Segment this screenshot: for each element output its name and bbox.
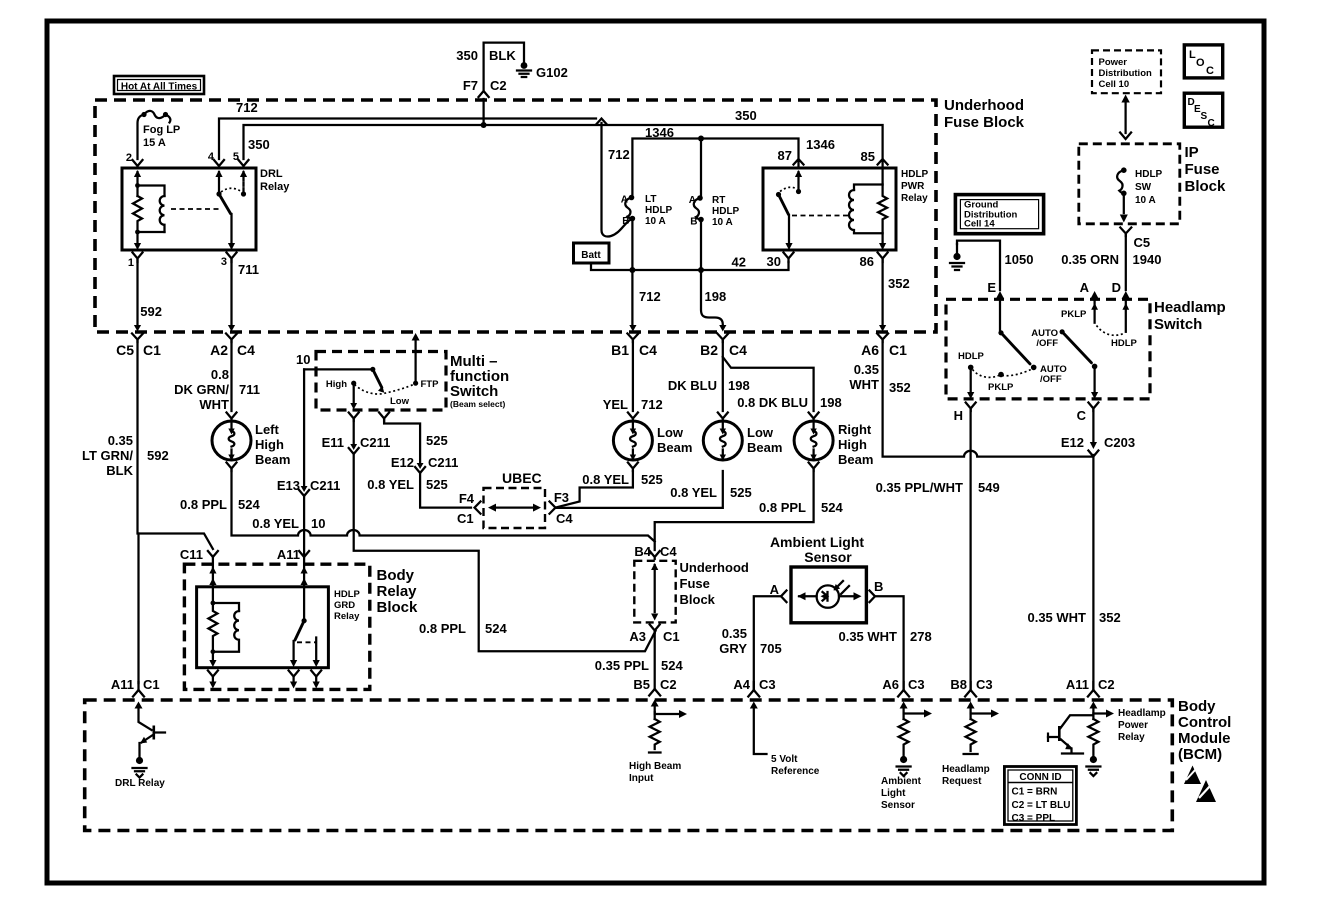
svg-text:Fuse: Fuse [680,576,710,591]
svg-text:C2: C2 [1098,677,1115,692]
switch dotted arc [355,384,416,394]
svg-text:Relay: Relay [260,181,290,193]
svg-text:Batt: Batt [581,250,601,261]
svg-text:Fog LP: Fog LP [143,124,180,136]
wire 0.35 WHT 352 to BCM [1027,455,1120,689]
svg-text:C211: C211 [310,478,340,493]
svg-text:549: 549 [978,480,1000,495]
svg-text:Beam: Beam [838,452,873,467]
svg-text:C1: C1 [143,342,161,358]
svg-text:BLK: BLK [489,48,516,63]
connector C11 [180,547,218,587]
wire 0.8 YEL 525 (F3 to Low Beam L) [557,471,663,507]
svg-text:D: D [1112,280,1121,295]
svg-text:712: 712 [639,289,661,304]
pin A [1080,280,1099,323]
connector B2 C4 [700,325,747,358]
svg-text:Relay: Relay [334,611,360,622]
svg-text:Sensor: Sensor [881,800,915,811]
svg-text:A11: A11 [277,547,300,562]
transistor Headlamp Power Relay [1048,715,1093,753]
fuse RT HDLP 10A [689,195,740,228]
svg-text:Cell 10: Cell 10 [1099,79,1130,90]
svg-text:GRY: GRY [719,641,747,656]
Power Distribution Cell 10 (dashed box) [1092,50,1161,93]
svg-text:C: C [1208,118,1215,129]
svg-text:Low: Low [657,425,684,440]
wire 712 horizontal [219,100,596,159]
svg-text:5 Volt: 5 Volt [771,754,798,765]
fuse Fog LP 15A [138,111,181,159]
ground (DRL relay driver) [115,757,165,789]
svg-text:B2: B2 [700,342,718,358]
svg-text:L: L [1189,49,1196,61]
High Beam Input [629,710,687,784]
connector A11 C2 [1066,677,1115,709]
connector A2 C4 [210,325,255,358]
connector B8 C3 [950,677,992,709]
wire 352 from pin 86 [883,260,910,325]
junction dots on 42 [629,267,635,273]
svg-text:/OFF: /OFF [1036,338,1058,349]
svg-text:CONN ID: CONN ID [1019,772,1061,783]
Headlamp Switch (dashed box) [946,299,1226,399]
svg-text:0.35 PPL: 0.35 PPL [595,658,649,673]
connector B5 C2 [633,677,676,712]
svg-text:E11: E11 [322,435,344,450]
svg-text:F4: F4 [459,491,475,506]
svg-text:Power: Power [1118,720,1148,731]
Underhood Fuse Block small (dashed box) [634,560,749,622]
svg-text:Headlamp: Headlamp [1154,299,1226,316]
svg-text:0.8 DK BLU: 0.8 DK BLU [737,395,808,410]
svg-text:0.35: 0.35 [722,626,747,641]
connector A3 C1 [629,625,679,645]
ground G102 [517,62,568,80]
lamp Left High Beam [212,413,290,468]
svg-text:GRD: GRD [334,600,355,611]
svg-text:711: 711 [238,262,259,277]
Batt box [574,243,610,263]
wire LT fuse B down (712) [632,220,660,325]
connector A4 C3 [733,677,775,709]
lamp Low Beam (right) [703,413,782,461]
svg-text:0.8 PPL: 0.8 PPL [759,500,806,515]
svg-text:C2 = LT BLU: C2 = LT BLU [1012,800,1071,811]
svg-text:Control: Control [1178,714,1231,731]
svg-text:C1: C1 [663,629,680,644]
svg-text:525: 525 [730,485,752,500]
svg-text:Relay: Relay [377,583,418,600]
svg-text:352: 352 [889,380,911,395]
connector B1 C4 [611,325,657,358]
svg-text:524: 524 [661,658,683,673]
wire 42 [591,255,789,271]
svg-text:C3: C3 [908,677,925,692]
svg-text:3: 3 [221,256,227,268]
Body Control Module (dashed box) [85,698,1232,831]
svg-text:524: 524 [485,621,507,636]
svg-text:F3: F3 [554,490,569,505]
wire 0.35 ORN 1940 [1061,235,1161,290]
wire through small fuse block [651,563,658,621]
svg-text:524: 524 [238,497,260,512]
svg-text:0.8: 0.8 [211,367,229,382]
svg-text:30: 30 [767,254,781,269]
HDLP PWR relay coil [849,168,887,250]
svg-text:G102: G102 [536,65,568,80]
IP Fuse Block (dashed box) [1079,144,1226,224]
svg-text:C11: C11 [180,547,203,562]
svg-text:High: High [255,437,284,452]
coil ground pin below [208,671,218,689]
svg-text:FTP: FTP [421,379,440,390]
svg-text:C211: C211 [428,455,458,470]
pin E [987,280,1004,333]
svg-text:C4: C4 [660,544,677,559]
wire 0.35 GRY 705 [719,596,781,689]
svg-text:C3 = PPL: C3 = PPL [1012,813,1056,824]
svg-text:10: 10 [311,516,325,531]
wire DK BLU 198 to Low Beam R [668,341,750,411]
wire Low output 525 [367,420,475,526]
svg-text:(Beam select): (Beam select) [450,399,505,409]
svg-text:Beam: Beam [747,440,782,455]
svg-text:O: O [1196,57,1205,69]
svg-text:HDLP: HDLP [901,169,929,180]
svg-text:525: 525 [426,477,448,492]
connector E12 C203 [1061,410,1135,457]
svg-text:C4: C4 [639,342,657,358]
svg-text:S: S [1201,111,1208,122]
svg-text:A4: A4 [733,677,750,692]
svg-text:B1: B1 [611,342,629,358]
DRL relay switch [215,170,247,250]
junction F7C2 x 350 [481,122,487,128]
wire ground to E [957,241,1000,290]
wire 10 / 0.8 YEL to A11 [252,369,340,555]
svg-text:Switch: Switch [450,383,498,400]
wire 10 into switch [304,368,373,370]
Headlamp Power Relay output [1086,706,1165,776]
svg-text:A11: A11 [111,677,134,692]
svg-text:HDLP: HDLP [334,589,361,600]
headlamp switch pole 2 [1061,309,1138,369]
svg-text:C4: C4 [237,342,255,358]
svg-text:LT: LT [645,194,656,205]
svg-text:C211: C211 [360,435,390,450]
svg-text:350: 350 [248,137,270,152]
connector A11 (body relay block) [277,547,309,587]
svg-text:352: 352 [1099,610,1121,625]
svg-text:Power: Power [1099,57,1128,68]
wire HDLP contact to H [954,369,976,423]
wire blade2 to C [1077,368,1099,423]
HDLP PWR relay link (dashed) [792,215,849,217]
svg-text:Right: Right [838,422,872,437]
HDLP PWR relay switch [776,170,802,250]
FTP contact [412,333,440,390]
svg-text:A: A [770,582,780,597]
svg-text:B8: B8 [950,677,967,692]
HDLP PWR relay box [763,168,929,250]
fuse LT HDLP 10A [621,194,673,227]
High contact [326,379,357,410]
svg-text:C3: C3 [759,677,776,692]
svg-text:Underhood: Underhood [944,97,1024,114]
svg-text:C3: C3 [976,677,993,692]
svg-text:712: 712 [641,397,663,412]
svg-text:B: B [690,217,697,228]
svg-text:WHT: WHT [199,397,229,412]
DESC box [1184,93,1222,129]
svg-text:Distribution: Distribution [1099,68,1152,79]
svg-text:0.35: 0.35 [108,433,133,448]
wire 0.35 PPL/WHT 549 [876,410,1000,689]
wire 350 horizontal [244,108,883,159]
svg-text:15 A: 15 A [143,137,166,149]
Ambient Light Sensor input [881,706,932,811]
DRL relay link (dashed) [171,208,219,210]
svg-text:10 A: 10 A [1135,195,1156,206]
svg-text:DRL Relay: DRL Relay [115,778,165,789]
svg-text:198: 198 [728,378,750,393]
svg-text:A6: A6 [861,342,879,358]
wire 0.35 WHT 278 [838,596,931,689]
svg-text:1346: 1346 [645,125,674,140]
svg-text:Ambient: Ambient [881,776,922,787]
svg-text:Body: Body [377,567,415,584]
svg-text:712: 712 [236,100,258,115]
svg-text:1346: 1346 [806,137,835,152]
svg-text:0.35 ORN: 0.35 ORN [1061,252,1119,267]
svg-text:Ambient Light: Ambient Light [770,534,864,550]
svg-text:C2: C2 [660,677,677,692]
svg-text:RT: RT [712,195,725,206]
svg-text:85: 85 [861,149,875,164]
svg-text:0.35 WHT: 0.35 WHT [1027,610,1086,625]
svg-text:0.35 PPL/WHT: 0.35 PPL/WHT [876,480,963,495]
svg-text:C1: C1 [143,677,160,692]
svg-text:C1: C1 [457,511,474,526]
Ambient Light Sensor [770,534,866,623]
svg-text:B: B [622,216,629,227]
svg-text:A3: A3 [629,629,646,644]
pin B of sensor [870,579,884,602]
wire 592 to C11 and BCM [82,341,213,683]
connector C5 C1 [116,325,161,358]
switch pins below [289,671,322,689]
svg-text:C: C [1077,408,1087,423]
connector F3 C4 [550,490,574,526]
connector below Low output [379,413,389,422]
svg-text:712: 712 [608,147,630,162]
svg-text:High Beam: High Beam [629,761,681,772]
svg-text:High: High [326,379,347,390]
connector F4 C1 [475,502,481,514]
headlamp switch pole 1 [958,328,1067,393]
branch 0.8 DK BLU 198 to Right High Beam [723,357,842,411]
svg-text:42: 42 [732,255,746,270]
svg-text:Block: Block [377,599,419,616]
svg-text:E12: E12 [391,455,414,470]
svg-text:A6: A6 [882,677,899,692]
wire E11 C211 (high beam to BCM) [322,420,656,651]
svg-text:A11: A11 [1066,677,1089,692]
svg-text:711: 711 [239,382,260,397]
svg-text:10 A: 10 A [645,216,666,227]
svg-text:E: E [987,280,996,295]
svg-text:B4: B4 [634,544,651,559]
svg-text:HDLP: HDLP [712,206,740,217]
wire 592 [138,260,163,325]
svg-text:A: A [621,195,628,206]
wire 0.35 PPL 524 [595,632,684,689]
svg-text:Cell 14: Cell 14 [964,219,995,230]
svg-text:Underhood: Underhood [680,560,749,575]
svg-text:PKLP: PKLP [1061,309,1087,320]
svg-text:Hot At All Times: Hot At All Times [121,82,198,93]
svg-text:Left: Left [255,422,280,437]
svg-text:0.8 PPL: 0.8 PPL [419,621,466,636]
svg-text:HDLP: HDLP [645,205,673,216]
svg-text:HDLP: HDLP [1111,338,1138,349]
wire 712 vertical to LT fuse B [602,123,632,237]
DRL relay coil [133,170,165,250]
wire 352 from A6 C1 down [849,341,1093,457]
svg-text:Input: Input [629,773,654,784]
svg-text:DRL: DRL [260,168,283,180]
svg-text:350: 350 [456,48,478,63]
label Hot At All Times [114,76,204,94]
svg-text:Module: Module [1178,730,1231,747]
wire 350 BLK to G102 [456,43,524,125]
connector F7 C2 [479,91,489,97]
svg-text:198: 198 [705,289,727,304]
HDLP GRD Relay box [197,587,361,668]
svg-text:DK BLU: DK BLU [668,378,717,393]
svg-text:DK GRN/: DK GRN/ [174,382,229,397]
svg-text:525: 525 [641,472,663,487]
connector A6 C1 [861,325,907,358]
wire 711 to Left High Beam [174,341,260,412]
svg-text:Fuse Block: Fuse Block [944,114,1025,131]
svg-text:1940: 1940 [1133,252,1162,267]
Multi-function Switch (dashed box) [296,352,509,411]
svg-text:352: 352 [888,276,910,291]
svg-text:C4: C4 [556,511,573,526]
svg-text:B: B [874,579,883,594]
svg-text:High: High [838,437,867,452]
svg-text:C5: C5 [1134,235,1151,250]
lamp Right High Beam [794,413,873,468]
wire 0.8 PPL 524 from Right High Beam to B4 [655,470,844,550]
connector B4 C4 [634,544,677,559]
svg-text:2: 2 [126,152,132,164]
svg-text:(BCM): (BCM) [1178,746,1222,763]
UBEC (dashed box) [484,470,546,528]
svg-text:F7: F7 [463,78,478,93]
connector on 712 [597,119,607,125]
LOC box [1184,45,1222,78]
HDLP GRD relay coil [208,587,239,667]
svg-text:C2: C2 [490,78,507,93]
svg-text:C4: C4 [729,342,747,358]
svg-text:BLK: BLK [106,463,133,478]
svg-text:/OFF: /OFF [1040,374,1062,385]
svg-text:Low: Low [747,425,774,440]
svg-text:Body: Body [1178,698,1216,715]
wire 0.8 PPL 524 from Left High Beam [180,470,655,542]
connector C5 [1120,228,1150,251]
svg-text:Fuse: Fuse [1185,161,1220,178]
svg-text:10: 10 [296,352,310,367]
svg-text:Switch: Switch [1154,316,1202,333]
HDLP GRD relay switch [290,587,320,667]
svg-text:C5: C5 [116,342,134,358]
pin D wire from C5 [1112,280,1130,332]
svg-text:Reference: Reference [771,766,820,777]
svg-text:IP: IP [1185,144,1199,161]
connector below Right High Beam [809,463,819,472]
switch common node [370,367,375,372]
ground 1050 [950,244,1033,270]
svg-text:UBEC: UBEC [502,470,542,486]
svg-text:SW: SW [1135,182,1152,193]
svg-text:0.8 YEL: 0.8 YEL [670,485,717,500]
connector below Low Beam L [628,463,638,472]
svg-text:1: 1 [128,257,134,269]
svg-text:Headlamp: Headlamp [1118,708,1166,719]
svg-text:WHT: WHT [849,377,879,392]
DRL relay box [122,168,290,250]
svg-text:C203: C203 [1104,435,1135,450]
connector below High output [349,413,359,422]
svg-text:LT GRN/: LT GRN/ [82,448,133,463]
svg-text:0.8 YEL: 0.8 YEL [252,516,299,531]
Body Relay Block (dashed box) [184,564,418,689]
svg-text:PKLP: PKLP [988,382,1014,393]
svg-text:A: A [689,195,696,206]
svg-text:0.8 YEL: 0.8 YEL [367,477,414,492]
svg-text:PWR: PWR [901,181,925,192]
svg-text:Request: Request [942,776,982,787]
1346 bus [632,125,835,198]
Underhood Fuse Block (dashed box) [95,100,936,332]
svg-text:C: C [1206,65,1214,77]
svg-text:HDLP: HDLP [1135,169,1163,180]
svg-text:0.35 WHT: 0.35 WHT [838,629,897,644]
svg-text:524: 524 [821,500,843,515]
svg-text:0.8 PPL: 0.8 PPL [180,497,227,512]
svg-text:E12: E12 [1061,435,1084,450]
svg-text:Low: Low [390,396,410,407]
svg-text:E13: E13 [277,478,300,493]
svg-text:592: 592 [140,304,162,319]
svg-text:H: H [954,408,963,423]
svg-text:A: A [1080,280,1090,295]
svg-text:1050: 1050 [1005,252,1034,267]
svg-text:0.8 YEL: 0.8 YEL [582,472,629,487]
connector A11 C1 (BCM) [111,677,160,709]
UBEC pass-through arrow [488,504,541,512]
svg-text:Block: Block [680,592,716,607]
svg-text:B5: B5 [633,677,650,692]
svg-text:Light: Light [881,788,906,799]
svg-text:592: 592 [147,448,169,463]
svg-text:525: 525 [426,433,448,448]
svg-text:C1 = BRN: C1 = BRN [1012,787,1058,798]
